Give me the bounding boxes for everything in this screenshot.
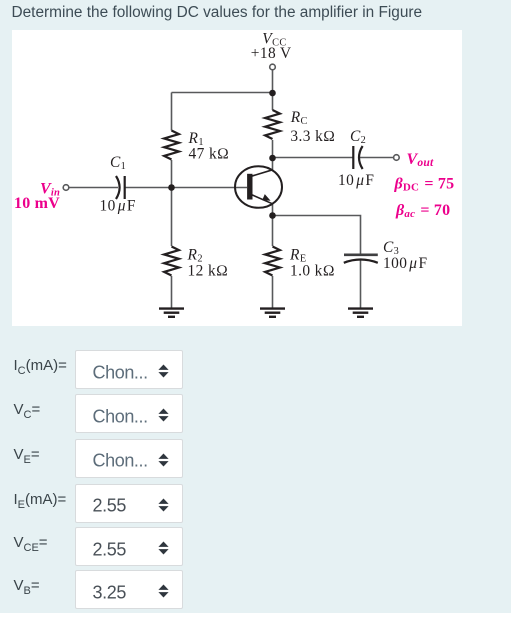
- capacitor C3: [344, 255, 378, 263]
- wire R2 bottom to ground: [171, 276, 173, 308]
- capacitor C2: [353, 146, 362, 169]
- wire Vin to C1: [69, 187, 118, 189]
- wire C3 to ground: [360, 260, 362, 308]
- wire emitter node to C3: [273, 216, 361, 255]
- svg-text:+18 V: +18 V: [251, 45, 292, 62]
- wire junction to RC top: [272, 93, 274, 110]
- svg-text:10 mV: 10 mV: [14, 195, 60, 212]
- resistor RE: [265, 247, 280, 276]
- svg-text:10μF: 10μF: [338, 172, 374, 189]
- wire RC bottom to collector node: [272, 140, 274, 158]
- transistor Q1: [235, 166, 282, 208]
- wire C2 to Vout: [360, 157, 394, 159]
- wire collector node to transistor: [272, 158, 274, 170]
- svg-text:C1: C1: [110, 154, 126, 172]
- wire collector node to C2: [273, 157, 354, 159]
- svg-text:βac = 70: βac = 70: [395, 202, 450, 220]
- wire C1 to transistor base: [125, 187, 248, 189]
- node base: [168, 184, 175, 191]
- node emitter: [269, 212, 276, 219]
- capacitor C1: [116, 176, 125, 199]
- ground R2: [159, 309, 184, 317]
- svg-text:1.0 kΩ: 1.0 kΩ: [290, 263, 335, 280]
- terminal Vout: [394, 155, 400, 161]
- wire RE bottom to ground: [272, 276, 274, 308]
- wire emitter node to RE top: [272, 216, 274, 247]
- wire left rail down to R1 top: [171, 93, 173, 131]
- wire R1 bottom to base node: [171, 160, 173, 188]
- svg-text:3.3 kΩ: 3.3 kΩ: [290, 128, 335, 145]
- node top junction: [269, 90, 276, 97]
- svg-text:βDC = 75: βDC = 75: [394, 176, 455, 194]
- wire base node to R2 top: [171, 188, 173, 247]
- terminal Vcc: [270, 64, 276, 70]
- svg-text:12 kΩ: 12 kΩ: [188, 263, 229, 280]
- node collector: [269, 155, 276, 162]
- terminal Vin: [63, 185, 69, 191]
- svg-text:47 kΩ: 47 kΩ: [189, 146, 230, 163]
- svg-text:Vout: Vout: [407, 151, 435, 169]
- svg-text:C2: C2: [350, 128, 366, 146]
- svg-text:10μF: 10μF: [100, 198, 136, 215]
- svg-text:RC: RC: [290, 109, 308, 127]
- ground RE: [260, 309, 285, 317]
- wire Vcc to top junction: [272, 70, 274, 93]
- resistor RC: [265, 110, 280, 139]
- wire top junction to R1 top: [172, 92, 273, 94]
- wire emitter to emitter node: [272, 204, 274, 216]
- resistor R2: [164, 247, 179, 276]
- svg-text:100μF: 100μF: [383, 255, 427, 272]
- resistor R1: [164, 131, 179, 160]
- ground C3: [348, 309, 373, 317]
